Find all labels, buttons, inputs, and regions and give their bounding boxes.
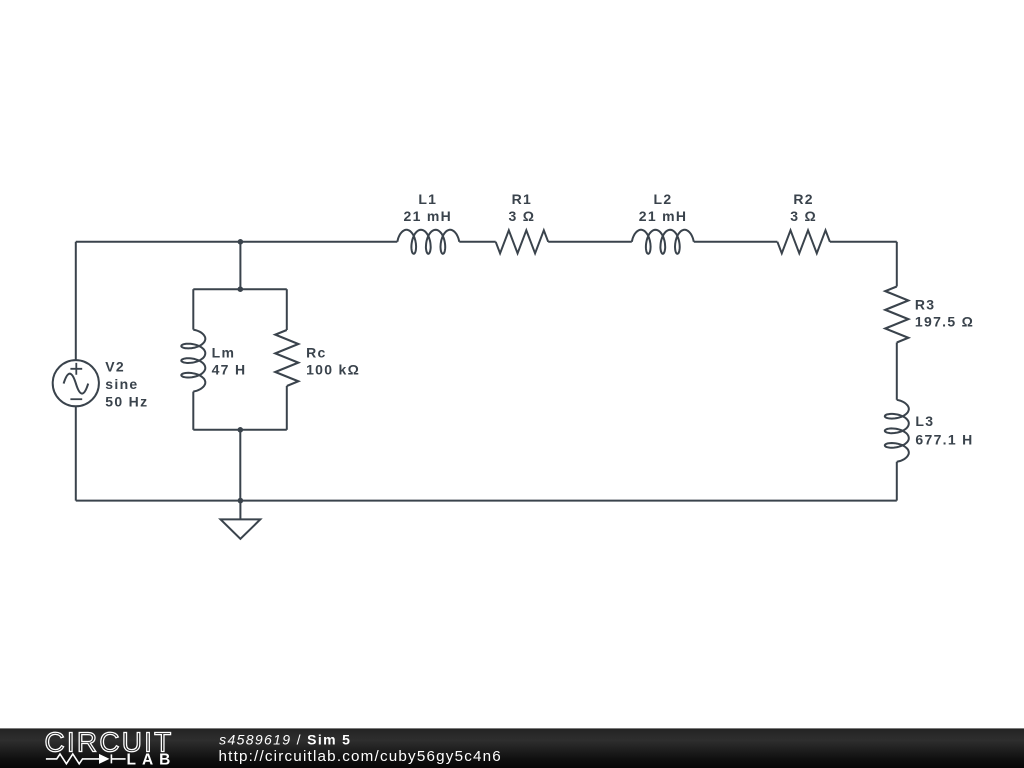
wire L1-R1 (459, 241, 495, 243)
wire node stub (239, 242, 241, 289)
svg-text:V2: V2 (105, 358, 125, 374)
inductor Lm (181, 330, 205, 392)
V2 minus (70, 398, 82, 400)
wire box bottom (193, 429, 286, 431)
wire left upper (75, 242, 77, 360)
wire R1-L2 (548, 241, 632, 243)
wire box top (193, 288, 286, 290)
wire right upper (896, 242, 898, 287)
svg-text:R2: R2 (793, 191, 814, 207)
wire L3-bottom (896, 462, 898, 501)
svg-text:Rc: Rc (306, 344, 327, 360)
logo diode triangle (99, 754, 110, 764)
svg-text:21 mH: 21 mH (404, 208, 453, 224)
svg-text:677.1 H: 677.1 H (915, 431, 973, 447)
logo symbol row: resistor zigzag + diode (46, 754, 126, 764)
node dot bottom rail (238, 498, 244, 504)
svg-text:197.5 Ω: 197.5 Ω (915, 314, 974, 330)
ground stub (239, 501, 241, 520)
wire L2-R2 (694, 241, 778, 243)
svg-text:LAB: LAB (127, 751, 177, 768)
ground symbol (221, 519, 261, 539)
V2 sine (64, 374, 89, 394)
svg-text:sine: sine (105, 376, 138, 392)
svg-text:3 Ω: 3 Ω (790, 208, 817, 224)
wire top rail left (76, 241, 398, 243)
node dot box bottom (238, 427, 244, 433)
wire box left lower (192, 392, 194, 430)
voltage source V2 circle (53, 360, 99, 406)
svg-text:L3: L3 (915, 413, 934, 429)
inductor L2 (632, 230, 694, 254)
svg-text:R1: R1 (512, 191, 533, 207)
node dot top (238, 239, 244, 245)
wire left lower (75, 406, 77, 500)
wire bottom rail (76, 500, 897, 502)
inductor L3 (885, 400, 909, 462)
svg-text:3 Ω: 3 Ω (508, 208, 535, 224)
svg-text:47 H: 47 H (212, 362, 247, 378)
svg-text:L1: L1 (418, 191, 437, 207)
svg-text:50 Hz: 50 Hz (105, 394, 148, 410)
wire box right upper (286, 289, 288, 330)
footer bar (0, 728, 1024, 768)
svg-text:Lm: Lm (212, 344, 236, 360)
resistor R1 (496, 230, 549, 253)
svg-text:R3: R3 (915, 297, 936, 313)
V2 plus (70, 363, 82, 375)
wire box right lower (286, 386, 288, 430)
svg-text:100 kΩ: 100 kΩ (306, 362, 360, 378)
wire R3-L3 (896, 343, 898, 400)
wire R2-corner (830, 241, 897, 243)
resistor R2 (777, 230, 830, 253)
inductor L1 (397, 230, 459, 254)
wire box left upper (192, 289, 194, 329)
resistor R3 (885, 287, 908, 343)
svg-text:s4589619 / Sim 5: s4589619 / Sim 5 (219, 732, 351, 748)
node dot box top (238, 286, 244, 292)
resistor Rc (275, 330, 298, 386)
svg-text:L2: L2 (654, 191, 673, 207)
svg-text:21 mH: 21 mH (639, 208, 688, 224)
wire box-ground stub (239, 430, 241, 501)
svg-text:http://circuitlab.com/cuby56gy: http://circuitlab.com/cuby56gy5c4n6 (219, 748, 502, 765)
